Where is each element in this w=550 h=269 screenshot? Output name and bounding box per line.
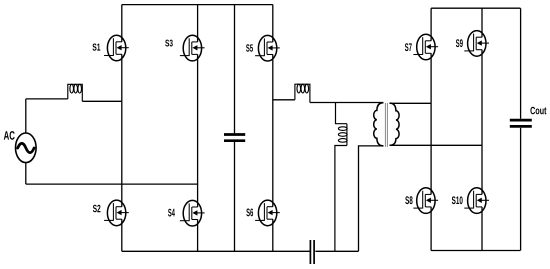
wire leg S5 drain — [272, 5, 274, 42]
wire leg S9 source to S10 drain — [481, 50, 483, 195]
wire inductor L1 to S1 S2 midpoint — [82, 100, 122, 102]
wire secondary top to S7 S8 midpoint — [390, 102, 432, 104]
wire magnetizing inductor bottom lead — [335, 146, 347, 252]
wire bottom rail of left bridge — [122, 250, 310, 252]
transistor S9 — [456, 31, 489, 57]
wire leg S4 source — [197, 220, 199, 252]
wire leg S3 drain — [197, 5, 199, 42]
wire S5 S6 midpoint to inductor L2 — [273, 99, 295, 101]
transistor S7 — [405, 34, 438, 60]
transformer T1 primary winding — [374, 103, 384, 146]
wire capacitor Cout upper lead — [520, 8, 522, 119]
transistor S3 — [165, 35, 204, 61]
transistor S1 — [92, 35, 128, 61]
transformer T1 core — [385, 103, 387, 147]
wire leg S2 source — [121, 219, 123, 251]
wire leg S1 drain — [121, 5, 123, 42]
wire leg S7 source to S8 drain — [430, 53, 432, 194]
transistor S4 — [168, 200, 205, 226]
wire leg S1 source to S2 drain — [121, 54, 123, 206]
wire capacitor Cout lower lead — [520, 128, 522, 251]
capacitor Cout — [510, 120, 532, 126]
wire bottom rail right of series capacitor — [315, 250, 358, 252]
transistor S8 — [405, 188, 438, 214]
wire AC to inductor L1 — [26, 98, 68, 100]
label Cout — [530, 107, 546, 115]
wire leg S6 source — [272, 219, 274, 251]
wire DC bus capacitor upper lead — [234, 5, 236, 134]
inductor L1 — [68, 84, 83, 101]
wire leg S10 source — [481, 207, 483, 251]
wire bottom rail of right bridge — [431, 250, 520, 252]
wire magnetizing inductor top lead — [336, 103, 347, 124]
capacitor C1 DC bus — [224, 135, 245, 141]
wire secondary bottom to S9 S10 midpoint — [390, 144, 483, 146]
wire leg S8 source — [430, 207, 432, 251]
wire transformer primary bottom riser — [359, 146, 384, 251]
AC source — [15, 133, 36, 163]
transistor S5 — [246, 35, 280, 61]
wire inductor L2 to transformer primary top — [310, 102, 384, 104]
wire AC return to S3 S4 midpoint — [26, 183, 198, 185]
wire leg S5 source to S6 drain — [272, 55, 274, 207]
wire DC bus capacitor lower lead — [234, 142, 236, 251]
label AC — [4, 131, 15, 140]
wire top rail of right bridge — [431, 7, 520, 9]
wire top rail of left bridge — [122, 4, 273, 6]
wire leg S3 source to S4 drain — [197, 54, 199, 207]
wire AC source upper lead — [25, 99, 27, 133]
transistor S10 — [452, 188, 489, 214]
transistor S2 — [93, 200, 129, 226]
transformer T1 secondary winding — [390, 103, 400, 145]
inductor Lm magnetizing — [338, 124, 347, 146]
wire AC source lower lead — [25, 163, 27, 185]
capacitor C2 series blocking — [310, 240, 314, 264]
inductor L2 — [295, 84, 310, 102]
wire leg S7 drain — [430, 8, 432, 41]
wire leg S9 drain — [481, 8, 483, 37]
transistor S6 — [246, 200, 279, 226]
